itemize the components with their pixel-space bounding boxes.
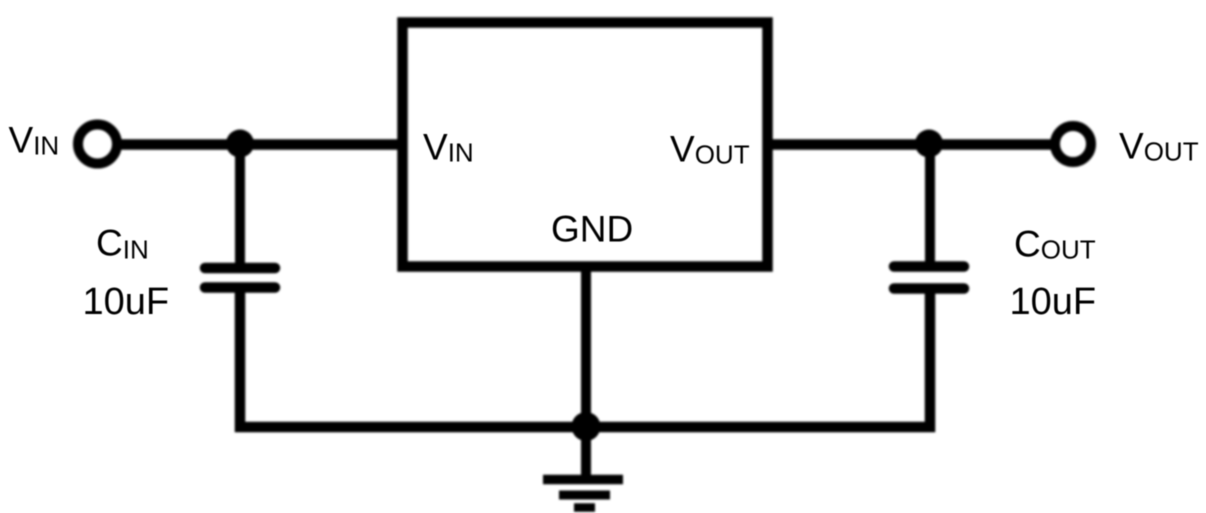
wire: CIN bottom plate down, bottom ground rail, up to COUT bottom plate (240, 291, 930, 427)
svg-text:10uF: 10uF (1010, 281, 1097, 323)
node VOUT output terminal (1055, 126, 1091, 162)
wire input: VIN terminal to regulator VIN pin (97, 139, 402, 150)
svg-text:10uF: 10uF (83, 281, 170, 323)
node input junction (226, 130, 254, 158)
capacitor C2 COUT bottom plate (894, 283, 964, 294)
capacitor C2 COUT top plate (894, 261, 964, 272)
node output junction (915, 130, 943, 158)
svg-text:GND: GND (551, 209, 633, 250)
wire: output junction down to COUT top plate (925, 144, 935, 265)
op-amp U1 regulator box (403, 23, 768, 267)
ground (543, 480, 623, 508)
capacitor C1 CIN top plate (205, 263, 275, 274)
node VIN input terminal (78, 125, 117, 164)
capacitor C1 CIN bottom plate (205, 282, 275, 293)
node ground junction (572, 412, 601, 441)
wire: input junction down to CIN top plate (235, 144, 245, 267)
wire output: regulator VOUT pin to VOUT terminal (767, 139, 1073, 150)
wire: GND pin down to ground (581, 266, 591, 480)
